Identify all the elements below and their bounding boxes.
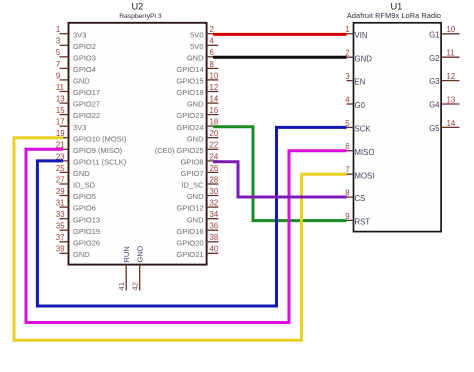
svg-text:GND: GND bbox=[187, 100, 204, 109]
pin 30 GND (U2 right) bbox=[187, 187, 219, 201]
pin 27 ID_SD (U2 left) bbox=[56, 175, 96, 189]
svg-text:20: 20 bbox=[210, 129, 219, 138]
svg-text:RUN: RUN bbox=[122, 246, 131, 262]
svg-text:GPIO26: GPIO26 bbox=[73, 238, 100, 247]
svg-text:GPIO20: GPIO20 bbox=[176, 238, 203, 247]
wire 5V: U2 pin2 5V0 to U1 VIN (red) bbox=[213, 33, 347, 36]
svg-text:GND: GND bbox=[187, 215, 204, 224]
pin 33 GPIO13 (U2 left) bbox=[56, 210, 100, 224]
svg-text:12: 12 bbox=[447, 72, 456, 81]
svg-text:9: 9 bbox=[56, 71, 60, 80]
pin 23 GPIO11 (SCLK) (U2 left) bbox=[56, 152, 127, 166]
svg-text:GPIO11 (SCLK): GPIO11 (SCLK) bbox=[73, 158, 127, 167]
svg-text:GPIO7: GPIO7 bbox=[181, 169, 204, 178]
svg-text:GPIO13: GPIO13 bbox=[73, 215, 100, 224]
pin 24 GPIO8 (U2 right) bbox=[181, 152, 219, 166]
svg-text:28: 28 bbox=[210, 175, 219, 184]
svg-text:30: 30 bbox=[210, 187, 219, 196]
pin 1 VIN (U1 left) bbox=[345, 25, 367, 40]
pin 12 GPIO18 (U2 right) bbox=[176, 83, 218, 97]
pin 7 GPIO4 (U2 left) bbox=[56, 60, 96, 74]
svg-text:GPIO10 (MOSI): GPIO10 (MOSI) bbox=[73, 134, 127, 143]
svg-text:(CE0) GPIO25: (CE0) GPIO25 bbox=[155, 146, 204, 155]
pin 41 RUN (U2 bottom) bbox=[117, 246, 131, 290]
svg-text:13: 13 bbox=[56, 95, 65, 104]
pin 9 GND (U2 left) bbox=[56, 71, 90, 85]
pin 37 GPIO26 (U2 left) bbox=[56, 233, 100, 247]
svg-text:EN: EN bbox=[355, 78, 366, 87]
svg-text:24: 24 bbox=[210, 152, 219, 161]
svg-text:5: 5 bbox=[56, 48, 61, 57]
svg-text:38: 38 bbox=[210, 233, 219, 242]
pin 2 5V0 (U2 right) bbox=[190, 25, 218, 39]
svg-text:32: 32 bbox=[210, 199, 219, 208]
svg-text:RaspberryPi 3: RaspberryPi 3 bbox=[119, 13, 162, 20]
svg-text:1: 1 bbox=[56, 25, 60, 34]
pin 34 GND (U2 right) bbox=[187, 210, 219, 224]
svg-text:35: 35 bbox=[56, 222, 65, 231]
pin 3 EN (U1 left) bbox=[345, 72, 365, 87]
svg-text:GND: GND bbox=[73, 250, 90, 259]
wire GND: U2 pin6 GND to U1 GND (black) bbox=[213, 56, 347, 59]
pin 36 GPIO16 (U2 right) bbox=[176, 222, 218, 236]
svg-text:ID_SC: ID_SC bbox=[181, 181, 204, 190]
wire SCK: U2 pin23 GPIO11 SCLK to U1 SCK (blue) bbox=[37, 127, 346, 306]
svg-text:MOSI: MOSI bbox=[355, 171, 375, 180]
pin 40 GPIO21 (U2 right) bbox=[176, 245, 218, 259]
svg-text:GPIO8: GPIO8 bbox=[181, 158, 204, 167]
wire RESET: U2 pin18 GPIO24 to U1 RST (green) bbox=[213, 127, 347, 221]
svg-text:14: 14 bbox=[447, 119, 456, 128]
svg-text:16: 16 bbox=[210, 106, 219, 115]
svg-text:2: 2 bbox=[210, 25, 214, 34]
svg-text:GND: GND bbox=[355, 54, 373, 63]
wire MOSI: U2 pin19 GPIO10 MOSI to U1 MOSI (yellow) bbox=[14, 138, 347, 340]
svg-text:G5: G5 bbox=[429, 124, 440, 133]
pin 1 3V3 (U2 left) bbox=[56, 25, 86, 39]
svg-text:GPIO4: GPIO4 bbox=[73, 65, 96, 74]
svg-text:31: 31 bbox=[56, 199, 65, 208]
pin 29 GPIO5 (U2 left) bbox=[56, 187, 96, 201]
svg-text:G1: G1 bbox=[429, 30, 439, 39]
svg-text:U2: U2 bbox=[131, 2, 143, 12]
svg-text:40: 40 bbox=[210, 245, 219, 254]
pin 5 SCK (U1 left) bbox=[345, 119, 371, 134]
pin 25 GND (U2 left) bbox=[56, 164, 90, 178]
pin 19 GPIO10 (MOSI) (U2 left) bbox=[56, 129, 127, 143]
svg-text:37: 37 bbox=[56, 233, 65, 242]
svg-text:G0: G0 bbox=[355, 101, 366, 110]
svg-text:3V3: 3V3 bbox=[73, 30, 86, 39]
svg-text:GPIO3: GPIO3 bbox=[73, 53, 96, 62]
pin 10 G1 (U1 right) bbox=[429, 25, 459, 39]
svg-text:27: 27 bbox=[56, 175, 65, 184]
svg-text:GPIO23: GPIO23 bbox=[176, 111, 203, 120]
svg-text:15: 15 bbox=[56, 106, 65, 115]
svg-text:11: 11 bbox=[447, 49, 455, 58]
svg-text:GPIO17: GPIO17 bbox=[73, 88, 100, 97]
svg-text:1: 1 bbox=[345, 25, 349, 34]
pin 38 GPIO20 (U2 right) bbox=[176, 233, 218, 247]
label U2 refdes bbox=[131, 2, 143, 12]
svg-text:12: 12 bbox=[210, 83, 219, 92]
svg-text:GPIO18: GPIO18 bbox=[176, 88, 203, 97]
svg-text:26: 26 bbox=[210, 164, 219, 173]
svg-text:ID_SD: ID_SD bbox=[73, 181, 96, 190]
svg-text:U1: U1 bbox=[390, 2, 402, 12]
svg-text:29: 29 bbox=[56, 187, 65, 196]
svg-text:33: 33 bbox=[56, 210, 65, 219]
svg-text:5V0: 5V0 bbox=[190, 30, 203, 39]
svg-text:GPIO12: GPIO12 bbox=[176, 204, 203, 213]
pin 6 MISO (U1 left) bbox=[345, 142, 374, 157]
svg-text:7: 7 bbox=[56, 60, 60, 69]
pin 8 GPIO14 (U2 right) bbox=[176, 60, 218, 74]
pin 42 GND (U2 bottom) bbox=[130, 245, 144, 290]
wire CS: U2 pin24 GPIO8 to U1 CS (purple) bbox=[213, 162, 347, 197]
svg-text:10: 10 bbox=[210, 71, 219, 80]
pin 13 G4 (U1 right) bbox=[429, 95, 459, 109]
pin 4 5V0 (U2 right) bbox=[190, 37, 218, 51]
svg-text:42: 42 bbox=[130, 282, 139, 290]
svg-text:GPIO27: GPIO27 bbox=[73, 100, 100, 109]
svg-text:Adafruit RFM9x LoRa Radio: Adafruit RFM9x LoRa Radio bbox=[347, 11, 441, 20]
svg-text:22: 22 bbox=[210, 141, 219, 150]
svg-text:17: 17 bbox=[56, 118, 65, 127]
svg-text:SCK: SCK bbox=[355, 125, 372, 134]
svg-text:14: 14 bbox=[210, 95, 219, 104]
pin 16 GPIO23 (U2 right) bbox=[176, 106, 218, 120]
svg-text:13: 13 bbox=[447, 95, 456, 104]
IC U1 Adafruit RFM9x LoRa Radio body bbox=[354, 23, 442, 232]
pin 22 (CE0) GPIO25 (U2 right) bbox=[155, 141, 219, 155]
svg-text:41: 41 bbox=[117, 282, 126, 290]
svg-text:36: 36 bbox=[210, 222, 219, 231]
pin 8 CS (U1 left) bbox=[345, 189, 365, 204]
pin 11 G2 (U1 right) bbox=[429, 49, 459, 63]
pin 13 GPIO27 (U2 left) bbox=[56, 95, 100, 109]
pin 3 GPIO2 (U2 left) bbox=[56, 37, 96, 51]
svg-text:GPIO6: GPIO6 bbox=[73, 204, 96, 213]
pin 15 GPIO22 (U2 left) bbox=[56, 106, 100, 120]
IC U2 RaspberryPi 3 body bbox=[69, 23, 207, 265]
svg-text:5V0: 5V0 bbox=[190, 42, 203, 51]
svg-text:GPIO15: GPIO15 bbox=[176, 77, 203, 86]
svg-text:GND: GND bbox=[187, 192, 204, 201]
pin 4 G0 (U1 left) bbox=[345, 95, 365, 110]
svg-text:GPIO24: GPIO24 bbox=[176, 123, 203, 132]
pin 10 GPIO15 (U2 right) bbox=[176, 71, 218, 85]
pin 31 GPIO6 (U2 left) bbox=[56, 199, 96, 213]
svg-text:3V3: 3V3 bbox=[73, 123, 86, 132]
svg-text:GND: GND bbox=[187, 134, 204, 143]
svg-text:8: 8 bbox=[210, 60, 214, 69]
svg-text:GPIO5: GPIO5 bbox=[73, 192, 96, 201]
pin 6 GND (U2 right) bbox=[187, 48, 218, 62]
svg-text:RST: RST bbox=[355, 218, 371, 227]
svg-text:GPIO22: GPIO22 bbox=[73, 111, 100, 120]
svg-text:G2: G2 bbox=[429, 54, 439, 63]
label RaspberryPi 3 part name bbox=[119, 13, 162, 20]
pin 26 GPIO7 (U2 right) bbox=[181, 164, 219, 178]
pin 39 GND (U2 left) bbox=[56, 245, 90, 259]
svg-text:GPIO21: GPIO21 bbox=[176, 250, 203, 259]
svg-text:GND: GND bbox=[187, 53, 204, 62]
svg-text:11: 11 bbox=[56, 83, 64, 92]
pin 5 GPIO3 (U2 left) bbox=[56, 48, 96, 62]
svg-text:GPIO19: GPIO19 bbox=[73, 227, 100, 236]
svg-text:GPIO9 (MISO): GPIO9 (MISO) bbox=[73, 146, 123, 155]
pin 14 GND (U2 right) bbox=[187, 95, 219, 109]
pin 11 GPIO17 (U2 left) bbox=[56, 83, 100, 97]
svg-text:3: 3 bbox=[56, 37, 60, 46]
svg-text:18: 18 bbox=[210, 118, 219, 127]
svg-text:GND: GND bbox=[73, 169, 90, 178]
svg-text:39: 39 bbox=[56, 245, 65, 254]
pin 18 GPIO24 (U2 right) bbox=[176, 118, 218, 132]
svg-text:G4: G4 bbox=[429, 101, 440, 110]
svg-text:G3: G3 bbox=[429, 77, 439, 86]
svg-text:GND: GND bbox=[73, 77, 90, 86]
svg-text:4: 4 bbox=[210, 37, 215, 46]
label Adafruit RFM9x LoRa Radio part name bbox=[347, 11, 441, 20]
svg-text:GPIO16: GPIO16 bbox=[176, 227, 203, 236]
pin 32 GPIO12 (U2 right) bbox=[176, 199, 218, 213]
svg-text:4: 4 bbox=[345, 95, 350, 104]
svg-text:GPIO2: GPIO2 bbox=[73, 42, 96, 51]
svg-text:3: 3 bbox=[345, 72, 349, 81]
svg-text:GPIO14: GPIO14 bbox=[176, 65, 203, 74]
pin 2 GND (U1 left) bbox=[345, 49, 372, 64]
pin 14 G5 (U1 right) bbox=[429, 119, 459, 133]
svg-text:34: 34 bbox=[210, 210, 219, 219]
svg-text:25: 25 bbox=[56, 164, 65, 173]
pin 12 G3 (U1 right) bbox=[429, 72, 459, 86]
svg-text:VIN: VIN bbox=[355, 31, 368, 40]
pin 21 GPIO9 (MISO) (U2 left) bbox=[56, 141, 123, 155]
label U1 refdes bbox=[390, 2, 402, 12]
svg-text:10: 10 bbox=[447, 25, 456, 34]
pin 17 3V3 (U2 left) bbox=[56, 118, 86, 132]
pin 20 GND (U2 right) bbox=[187, 129, 219, 143]
pin 28 ID_SC (U2 right) bbox=[181, 175, 218, 189]
pin 35 GPIO19 (U2 left) bbox=[56, 222, 100, 236]
svg-text:GND: GND bbox=[135, 245, 144, 262]
svg-text:CS: CS bbox=[355, 194, 366, 203]
pin 7 MOSI (U1 left) bbox=[345, 166, 374, 181]
svg-text:MISO: MISO bbox=[355, 148, 375, 157]
pin 9 RST (U1 left) bbox=[345, 212, 370, 227]
wire MISO: U2 pin21 GPIO9 MISO to U1 MISO (magenta) bbox=[26, 149, 347, 322]
